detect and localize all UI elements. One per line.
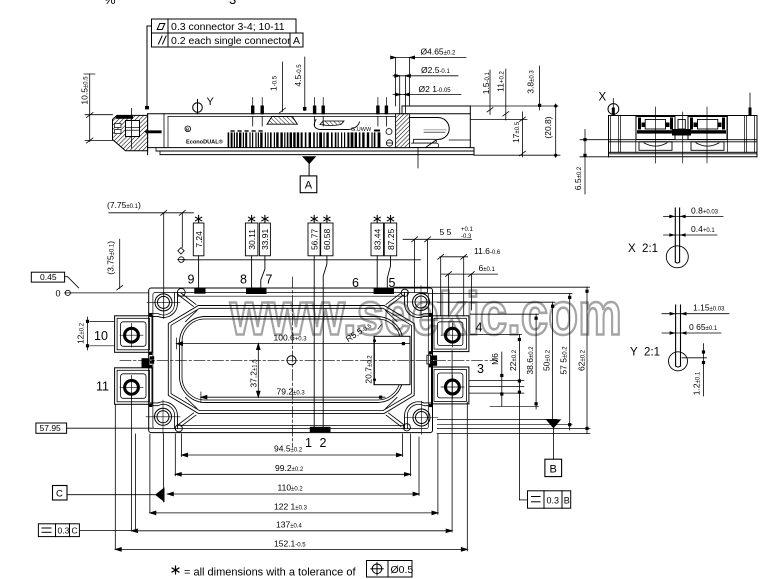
ext 57.5 top xyxy=(420,292,572,294)
ext 38.6 bottom xyxy=(490,405,539,407)
dim text 10.5 xyxy=(80,76,90,105)
svg-text:X 2:1: X 2:1 xyxy=(628,243,658,255)
lid octagon 3 xyxy=(180,317,404,403)
datum B box xyxy=(545,459,562,476)
svg-text:A: A xyxy=(293,35,300,47)
leader 33.91 xyxy=(261,256,265,288)
clip body outline xyxy=(402,106,470,148)
zero ref line xyxy=(70,292,148,294)
datum A triangle xyxy=(302,156,316,164)
svg-text:1: 1 xyxy=(305,436,312,450)
svg-text:3: 3 xyxy=(477,362,484,376)
dim 1.5-0.1 line xyxy=(489,70,491,115)
dia 2.1 dim xyxy=(393,94,461,96)
vertical centerline xyxy=(292,277,294,447)
svg-text:56.77: 56.77 xyxy=(310,228,320,250)
dim 100.6 line xyxy=(177,343,410,345)
centerline middle xyxy=(682,112,684,163)
center coupler xyxy=(678,120,685,130)
frame 0.3 C xyxy=(38,524,131,537)
dim 6.5 endview xyxy=(580,130,609,195)
dim text 1.5-0.1 xyxy=(481,71,491,94)
ext B line xyxy=(437,418,557,420)
svg-text:0.3: 0.3 xyxy=(547,496,560,506)
dim 10.5 line xyxy=(89,74,91,142)
left corner pin xyxy=(612,99,614,116)
baseplate lines xyxy=(148,147,474,149)
M6 leader line xyxy=(501,352,503,406)
left ext verticals xyxy=(114,405,116,550)
dim 7.75 line xyxy=(109,212,193,214)
box text 83.44 xyxy=(373,228,383,250)
zero ref circle xyxy=(65,290,70,295)
asterisks above boxes xyxy=(196,215,394,222)
Y dim 1.2 line xyxy=(703,344,705,396)
ext 50 top xyxy=(437,301,555,303)
body right edge xyxy=(469,106,471,148)
dim text 20.7 xyxy=(363,355,373,384)
R5.5 leader xyxy=(378,325,382,330)
hatched section bar xyxy=(396,114,410,148)
body inner step lines left xyxy=(163,114,165,148)
dim text 62 xyxy=(576,349,586,371)
body left edge xyxy=(147,114,149,155)
leader 7.24 xyxy=(198,256,200,288)
right ext verticals xyxy=(401,434,403,457)
leader 60.58 xyxy=(323,256,327,428)
mounting hole BR xyxy=(413,409,430,426)
X detail balloon xyxy=(608,104,619,115)
dim 122.1 xyxy=(150,512,438,514)
svg-text:11: 11 xyxy=(96,380,109,394)
corner bracket BL xyxy=(150,402,178,429)
hatched vent pocket xyxy=(267,117,297,125)
baseline xyxy=(182,259,420,261)
datum B leader xyxy=(553,428,555,459)
box 83.44 xyxy=(371,223,384,256)
svg-text:6: 6 xyxy=(352,276,359,290)
Y side line xyxy=(682,357,707,359)
hole TL extension vertical xyxy=(163,213,165,319)
left cap lines xyxy=(610,116,612,153)
dim 3.75 line xyxy=(119,239,121,288)
hole centerlines BR xyxy=(405,417,438,419)
dim text M6 xyxy=(490,353,500,365)
svg-text:%: % xyxy=(104,0,116,7)
dim 94.5 xyxy=(182,454,403,456)
svg-text:-0.3: -0.3 xyxy=(461,234,472,240)
ext 62 top xyxy=(394,286,590,288)
svg-text:EconoDUAL®: EconoDUAL® xyxy=(186,139,224,146)
svg-text:8: 8 xyxy=(240,273,247,287)
latch outline xyxy=(314,120,359,130)
57.95 box xyxy=(36,423,67,433)
Y dim text 1.2 xyxy=(692,371,702,395)
baseplate xyxy=(609,153,758,155)
dim 37.2 line xyxy=(257,344,259,398)
svg-text:83.44: 83.44 xyxy=(373,228,383,250)
ext 57.5 bottom xyxy=(437,424,572,426)
box 7.24 xyxy=(193,223,204,256)
X pin lines xyxy=(674,208,676,262)
black arrow terminal xyxy=(144,130,161,134)
ext 38.6 top xyxy=(470,313,538,315)
centerline right pocket xyxy=(706,107,708,163)
clip center mark xyxy=(417,148,419,168)
box text 87.25 xyxy=(386,228,396,250)
dim 50 line xyxy=(552,302,554,419)
terminal box 10 xyxy=(115,316,152,353)
Y dim 0.65 line xyxy=(662,332,721,334)
ref target circle xyxy=(179,257,185,263)
Y dim 1.15 line xyxy=(662,313,729,315)
lid octagon 4 xyxy=(182,319,401,400)
datum B triangle xyxy=(546,419,562,428)
datum C leader xyxy=(67,494,155,496)
dim text 4.5-0.5 xyxy=(293,64,303,87)
X detail circle xyxy=(666,246,688,268)
top pads black xyxy=(194,288,205,294)
barcode label xyxy=(228,130,381,147)
mounting hole TL xyxy=(155,294,172,311)
dim text 1-0.5 xyxy=(268,75,278,91)
terminal box 3 xyxy=(432,367,469,404)
box 56.77 xyxy=(308,223,320,256)
leader 87.25 xyxy=(387,256,390,288)
svg-text:0.3 connector 3-4; 10-11: 0.3 connector 3-4; 10-11 xyxy=(171,21,285,33)
dim 137 xyxy=(132,530,453,532)
center hole xyxy=(287,356,296,365)
dim text 22 xyxy=(508,349,518,371)
dim 38.6 line xyxy=(535,314,537,409)
svg-text:A: A xyxy=(305,180,313,192)
dim 3.8 line xyxy=(539,66,541,110)
plan body outline xyxy=(149,288,433,433)
box text 60.58 xyxy=(322,228,332,250)
dim 99.2 xyxy=(175,473,410,475)
dim 1-0.5 line xyxy=(281,62,283,112)
corner bracket BR xyxy=(404,402,432,429)
box text 56.77 xyxy=(310,228,320,250)
svg-text:Y 2:1: Y 2:1 xyxy=(630,347,660,359)
svg-text:4: 4 xyxy=(476,321,483,335)
dim 5.5 line xyxy=(403,238,471,240)
svg-text:5: 5 xyxy=(389,276,396,290)
shelf lines xyxy=(609,139,758,141)
datum C box xyxy=(53,486,68,501)
box 30.11 xyxy=(245,223,258,256)
leader 83.44 xyxy=(376,256,378,288)
tolerance frame box rows xyxy=(152,19,304,47)
dim 79.2 line xyxy=(201,396,385,398)
svg-text:0.45: 0.45 xyxy=(40,272,57,282)
lid octagon 2 xyxy=(171,308,411,410)
svg-text:+0.1: +0.1 xyxy=(461,227,474,233)
hole centerlines BL xyxy=(146,416,180,418)
bottom pad black xyxy=(310,427,331,432)
dim text 38.6 xyxy=(525,346,535,375)
dim 11.6 line xyxy=(440,256,468,258)
dim 57.5 line xyxy=(569,293,571,430)
svg-text:7: 7 xyxy=(266,273,273,287)
ext box3 lines xyxy=(469,380,524,382)
ext body bottom xyxy=(437,433,590,435)
dim text 37.2 xyxy=(248,359,258,388)
box text 30.11 xyxy=(247,229,257,250)
svg-text:33.91: 33.91 xyxy=(260,228,270,250)
svg-text:Ø0.5: Ø0.5 xyxy=(391,564,414,576)
svg-text:(20.8): (20.8) xyxy=(543,116,553,138)
e-mark glyph xyxy=(185,126,191,132)
mounting hole BL xyxy=(155,408,172,425)
Y detail circle xyxy=(676,366,681,367)
svg-text:60.58: 60.58 xyxy=(322,228,332,250)
dim 22 line xyxy=(518,334,520,397)
svg-text:57.95: 57.95 xyxy=(40,423,62,433)
ref diamond xyxy=(178,248,184,254)
svg-text:M6: M6 xyxy=(490,353,500,365)
dia 4.65 dim xyxy=(392,57,467,59)
svg-text:87.25: 87.25 xyxy=(386,228,396,250)
Y detail marker xyxy=(193,103,203,113)
box 33.91 xyxy=(259,223,270,256)
end body outline xyxy=(609,116,758,153)
dim text 12 xyxy=(76,322,86,344)
dim 11+0.2 line xyxy=(505,69,507,120)
svg-text:C: C xyxy=(56,489,63,500)
clamp hatched block xyxy=(113,115,148,150)
horizontal centerline xyxy=(120,359,497,361)
note asterisk xyxy=(172,566,179,574)
hole centerlines TL xyxy=(147,301,180,303)
leader 30.11 xyxy=(251,256,253,288)
svg-text:30.11: 30.11 xyxy=(247,229,257,250)
terminal box 11 xyxy=(115,368,152,405)
svg-text:B: B xyxy=(550,464,557,476)
dim text 20.8 xyxy=(543,116,553,138)
dim 6 line xyxy=(442,273,498,275)
dim text 57.5 xyxy=(558,346,568,375)
clamp screw centerline xyxy=(131,109,133,149)
barcode top dashes xyxy=(231,130,235,131)
flatness symbol row1 xyxy=(157,24,165,30)
datum A box xyxy=(300,176,317,193)
hole centerlines TR xyxy=(404,301,438,303)
dim 12 line xyxy=(86,317,115,350)
svg-text:3: 3 xyxy=(229,0,236,7)
svg-text:10: 10 xyxy=(94,329,108,343)
tolerance frame leader xyxy=(147,26,152,107)
centerline left pocket xyxy=(655,107,657,163)
dim 110 xyxy=(167,493,419,495)
clamp top black grip xyxy=(116,115,133,118)
dim 20.7 line xyxy=(374,336,376,384)
dim text 6.5 xyxy=(573,166,583,190)
box text 7.24 xyxy=(194,231,204,248)
terminal box 4 xyxy=(432,316,469,352)
right cap lines xyxy=(744,116,746,153)
body top line xyxy=(148,113,471,115)
frame 0.3 B xyxy=(519,491,570,508)
dim text 50 xyxy=(541,349,551,371)
svg-text:0: 0 xyxy=(56,289,61,299)
right pocket xyxy=(691,142,724,151)
dim text 11+0.2 xyxy=(496,71,506,92)
svg-text:Y: Y xyxy=(207,96,215,108)
dim 20.8 line xyxy=(555,104,557,158)
svg-text:0.3: 0.3 xyxy=(58,526,70,536)
dim text R5.5 xyxy=(344,320,374,344)
corner bracket TR xyxy=(404,293,432,318)
corner bracket TL xyxy=(150,293,178,318)
svg-text:= all dimensions with a tolera: = all dimensions with a tolerance of xyxy=(184,567,356,579)
box 87.25 xyxy=(384,223,396,256)
ref vertical line xyxy=(181,213,183,248)
dim 62 line xyxy=(586,287,588,433)
right edge pad black xyxy=(427,355,431,364)
lid octagon 1 xyxy=(168,306,414,414)
ext line 20.8 top xyxy=(470,105,558,107)
box 60.58 xyxy=(321,223,333,256)
svg-text:7.24: 7.24 xyxy=(194,231,204,248)
left block xyxy=(636,117,675,140)
datum C triangle xyxy=(155,487,165,502)
0.45 box xyxy=(31,272,64,282)
right block xyxy=(688,117,727,140)
Y pin lines xyxy=(675,305,677,366)
leader 56.77 xyxy=(313,256,315,428)
X dim 0.8 line xyxy=(664,215,724,217)
X pin tip xyxy=(675,262,679,263)
clip top line xyxy=(402,105,470,107)
dim text 3.8 xyxy=(526,70,536,94)
dia 2.5 dim xyxy=(393,75,458,77)
svg-text:X: X xyxy=(599,92,607,104)
frame 0.3B leader vertical xyxy=(518,397,520,500)
dim 152.1 xyxy=(115,548,467,550)
dim 4.5-0.5 line xyxy=(304,57,306,111)
ext 22 top xyxy=(470,333,521,335)
watermark www.seekic.com xyxy=(229,280,622,348)
clamp slots xyxy=(115,124,122,128)
box text 33.91 xyxy=(260,228,270,250)
note position frame xyxy=(367,561,413,578)
left pocket xyxy=(639,142,672,151)
dim 17 line xyxy=(522,112,524,157)
pocket rectangle xyxy=(374,336,410,384)
recycling glyphs xyxy=(386,129,392,135)
clamp window xyxy=(126,121,140,137)
svg-text:0.2 each single connector: 0.2 each single connector xyxy=(171,35,291,47)
parallel symbol row2 xyxy=(159,36,167,44)
svg-text:B: B xyxy=(564,496,570,506)
svg-text:9: 9 xyxy=(188,273,195,287)
lid corner steps xyxy=(186,311,198,322)
X dim 0.4 line xyxy=(664,234,718,236)
dim text 3.75 xyxy=(106,241,116,275)
57.95 leader xyxy=(67,427,154,429)
mounting hole TR xyxy=(413,294,430,311)
svg-text:2: 2 xyxy=(320,436,327,450)
ext 62 bottom xyxy=(437,427,590,429)
svg-text:C: C xyxy=(72,526,78,536)
pins front view xyxy=(251,98,388,127)
dim text 17 xyxy=(511,121,521,143)
right corner pin xyxy=(749,93,751,116)
left edge pad black xyxy=(142,358,150,367)
svg-text:5 5: 5 5 xyxy=(440,227,452,237)
